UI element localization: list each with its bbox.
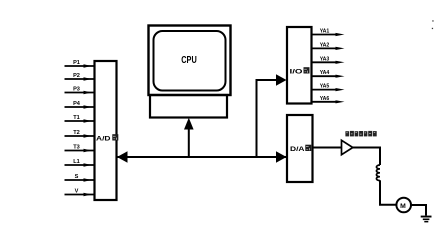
svg-text:M: M	[400, 203, 406, 210]
wire YA6	[312, 100, 345, 103]
svg-text:CPU: CPU	[181, 55, 197, 66]
wire I/O branch horizontal	[256, 79, 279, 81]
label I/O board	[290, 67, 310, 75]
wire I/O branch vertical	[256, 79, 258, 157]
ground	[421, 216, 432, 223]
svg-text:YA1: YA1	[320, 29, 330, 35]
block D/A board	[287, 115, 313, 182]
wire P4	[65, 105, 96, 109]
wire YA4	[312, 75, 345, 78]
svg-text:L1: L1	[73, 159, 80, 165]
solenoid coil	[376, 165, 380, 181]
block CPU monitor bezel	[149, 26, 231, 96]
block I/O board	[287, 27, 312, 104]
svg-text:YA2: YA2	[320, 42, 330, 48]
svg-text:P3: P3	[73, 87, 80, 93]
wire P3	[65, 91, 96, 95]
svg-text:P1: P1	[73, 60, 80, 66]
svg-text:YA5: YA5	[320, 84, 330, 90]
svg-text:A/D: A/D	[96, 136, 111, 143]
label caption above amplifier	[345, 131, 376, 137]
wire YA2	[312, 47, 345, 50]
wire system bus	[117, 156, 288, 158]
svg-text:YA6: YA6	[320, 96, 330, 102]
motor	[396, 198, 411, 213]
wire YA5	[312, 88, 345, 91]
wire V	[65, 193, 96, 197]
arrowhead bus into A/D board	[117, 151, 128, 163]
label D/A board	[290, 145, 311, 153]
wire P1	[65, 64, 96, 68]
block CPU screen	[154, 31, 226, 91]
wire YA1	[312, 33, 345, 36]
svg-text:T3: T3	[73, 145, 80, 151]
label A/D board	[96, 134, 118, 142]
svg-text:YA3: YA3	[320, 56, 330, 62]
wire coil to motor	[380, 180, 397, 205]
svg-text:YA4: YA4	[320, 70, 330, 76]
scan speck 1	[432, 20, 433, 21]
svg-text:P2: P2	[73, 73, 80, 79]
scan speck 2	[432, 28, 433, 29]
wire P2	[65, 77, 96, 81]
wire S	[65, 178, 96, 182]
arrowhead bus into D/A board	[276, 151, 287, 163]
block CPU monitor base	[150, 95, 227, 118]
arrowhead into CPU	[184, 118, 194, 130]
svg-text:T1: T1	[73, 115, 80, 121]
svg-text:I/O: I/O	[290, 69, 303, 76]
wire D/A to amplifier	[313, 147, 342, 149]
wire YA3	[312, 61, 345, 64]
wire T2	[65, 134, 96, 138]
wire amplifier to coil	[353, 148, 380, 166]
amplifier	[342, 140, 353, 154]
arrowhead into I/O board	[276, 74, 287, 86]
wire T3	[65, 149, 96, 153]
svg-text:S: S	[75, 174, 79, 180]
svg-text:D/A: D/A	[290, 146, 305, 153]
block A/D board	[95, 61, 117, 200]
wire CPU branch	[188, 126, 190, 157]
wire T1	[65, 119, 96, 123]
svg-text:V: V	[75, 189, 79, 195]
svg-text:T2: T2	[73, 130, 80, 136]
svg-text:P4: P4	[73, 101, 81, 107]
wire L1	[65, 163, 96, 167]
wire motor to ground	[411, 205, 426, 216]
